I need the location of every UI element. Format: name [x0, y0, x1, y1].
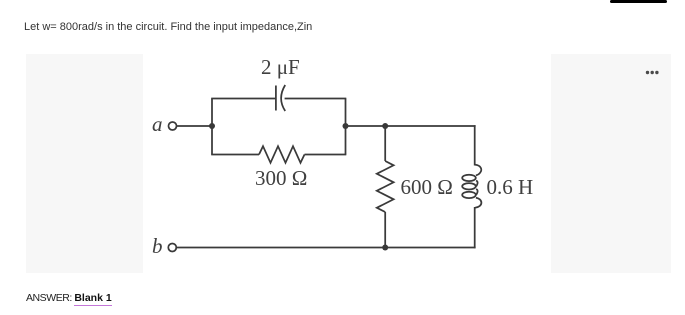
svg-text:300 Ω: 300 Ω — [255, 166, 307, 190]
wire bottom of 600 ohm — [384, 212, 386, 248]
junction dot top of 600 ohm — [382, 123, 388, 129]
main panel (light gray) — [26, 54, 546, 273]
question text — [24, 21, 312, 33]
right panel — [551, 54, 671, 273]
label 300 ohm — [255, 166, 307, 190]
svg-text:a: a — [152, 112, 163, 136]
ellipsis dots — [640, 66, 665, 80]
wire a to node — [177, 125, 212, 127]
svg-text:b: b — [152, 234, 163, 258]
wire box right side — [345, 99, 347, 155]
wire box bottom left — [211, 154, 259, 156]
wire box left side — [211, 99, 213, 155]
svg-text:2 μF: 2 μF — [261, 55, 300, 79]
wire top of inductor — [474, 125, 476, 165]
svg-text:0.6 H: 0.6 H — [487, 175, 534, 199]
label 600 ohm — [401, 175, 453, 199]
top-right black bar — [610, 0, 667, 3]
answer line — [26, 292, 112, 304]
junction dot left — [209, 123, 215, 129]
junction dot bottom — [382, 245, 388, 251]
circuit image white area — [143, 54, 546, 273]
svg-text:600 Ω: 600 Ω — [401, 175, 453, 199]
wire box top right — [285, 98, 347, 100]
label 0.6 H — [487, 175, 534, 199]
terminal a — [169, 122, 177, 130]
wire bottom of inductor — [474, 207, 476, 248]
resistor R2 600 ohm — [377, 161, 394, 212]
wire box top left — [211, 98, 276, 100]
junction dot right of box — [343, 123, 349, 129]
wire node to inductor branch — [346, 125, 476, 127]
label b — [152, 234, 163, 258]
capacitor C1 2uF — [276, 85, 285, 111]
label 2 uF — [261, 55, 300, 79]
bottom wire — [177, 247, 476, 249]
wire box bottom right — [305, 154, 347, 156]
wire top of 600 ohm — [384, 126, 386, 161]
inductor L1 0.6 H — [462, 165, 481, 208]
terminal b — [168, 244, 176, 252]
resistor R1 300 ohm — [259, 146, 305, 163]
label a — [152, 112, 163, 136]
